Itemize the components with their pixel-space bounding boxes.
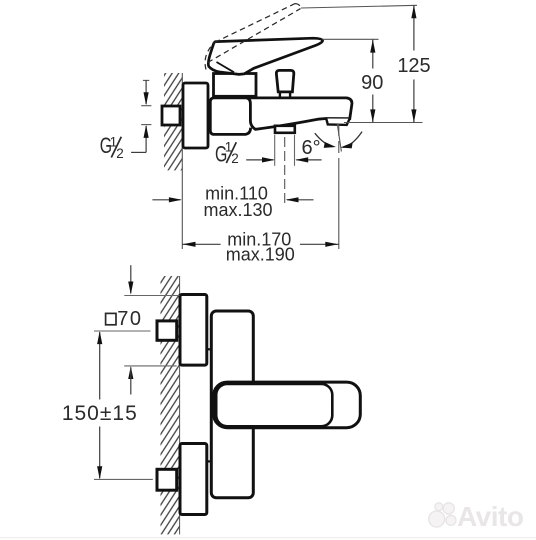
dimension square70	[130, 265, 132, 293]
aerator centre line	[338, 124, 340, 168]
cartridge block	[214, 74, 257, 97]
inlet dimension lines	[131, 80, 146, 152]
svg-text:150±15: 150±15	[62, 402, 138, 425]
6 deg arc right	[343, 132, 362, 148]
dimension 150+-15	[94, 330, 151, 332]
wall hatch upper view	[164, 73, 183, 170]
handle lever solid	[208, 38, 322, 74]
baseline under spout	[344, 122, 423, 124]
upper inlet lower view	[157, 321, 177, 340]
dimension 125	[413, 5, 415, 122]
label square 70	[106, 313, 116, 324]
svg-text:70: 70	[117, 308, 142, 330]
wall face line upper view	[181, 73, 183, 249]
inlet dimension arrowheads	[144, 92, 149, 105]
connector tick lower	[207, 460, 212, 462]
svg-text:2: 2	[231, 151, 239, 166]
handle outer lower view	[214, 382, 361, 428]
connector tick upper	[207, 348, 212, 350]
upper flange lower view	[180, 295, 207, 366]
handle crease line	[217, 62, 235, 72]
label G1/2 bottom	[215, 140, 239, 168]
label G1/2 left	[100, 135, 124, 162]
extension line from solid lever tip	[323, 38, 379, 40]
svg-text:Avito: Avito	[457, 501, 524, 532]
inlet pipe upper view	[162, 106, 180, 125]
diverter knob	[276, 70, 293, 92]
svg-text:max.190: max.190	[226, 244, 295, 264]
svg-text:125: 125	[397, 55, 430, 77]
spout axis 6 deg line	[337, 124, 341, 152]
shower outlet stub	[275, 126, 295, 133]
dimension 90	[372, 40, 374, 123]
wall face line lower view	[179, 276, 181, 534]
svg-text:max.130: max.130	[203, 200, 272, 220]
diverter stem	[279, 92, 281, 97]
G1/2 dimension arrows	[246, 159, 273, 161]
shower outlet centre line	[284, 137, 286, 206]
handle raised dashed position	[205, 4, 300, 70]
inlet dimension ticks	[141, 80, 151, 124]
wall flange upper view	[183, 83, 208, 148]
shower outlet extension lines	[274, 135, 276, 166]
extension line from dashed lever tip	[301, 5, 417, 8]
svg-text:90: 90	[361, 72, 383, 94]
wall hatch lower view	[161, 276, 180, 534]
body lower view	[211, 311, 253, 498]
svg-text:6°: 6°	[302, 137, 321, 159]
lower flange lower view	[180, 444, 207, 515]
dimension min170 max190	[182, 243, 221, 245]
handle inner lower view	[216, 384, 332, 426]
faint photo edge line bottom	[0, 537, 536, 539]
svg-text:2: 2	[116, 146, 124, 161]
aerator under spout tip	[326, 119, 350, 125]
lower inlet lower view	[157, 469, 177, 490]
body block	[210, 98, 250, 134]
spout	[246, 98, 352, 129]
dimension min110 max130 arrows	[152, 199, 180, 201]
6 deg arc left	[315, 133, 333, 147]
watermark avito logo circles	[429, 503, 456, 527]
